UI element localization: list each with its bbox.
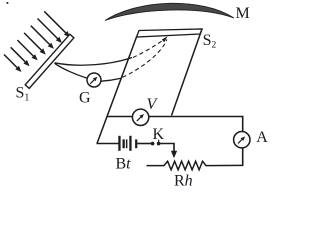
dashed ray upper (133, 40, 164, 58)
wire ammeter to bottom corner (242, 148, 244, 166)
svg-text:M: M (236, 5, 250, 22)
dashed ray lower (123, 40, 167, 78)
wire S1 to enclosure (upper) (55, 58, 133, 66)
stray dot (7, 2, 9, 4)
plate S2 strip (137, 29, 203, 37)
mirror M (105, 3, 234, 20)
electrode plate S1 (25, 34, 74, 88)
svg-text:K: K (153, 126, 165, 143)
rheostat Rh (147, 161, 244, 170)
voltmeter V (132, 109, 148, 125)
incident light rays (4, 11, 70, 72)
galvanometer G (87, 73, 101, 87)
battery Bt (118, 136, 137, 151)
wire enclosure to battery (97, 143, 119, 145)
wire battery to key (137, 143, 151, 145)
svg-text:Rh: Rh (174, 173, 193, 190)
wire voltmeter to right corner (149, 116, 244, 118)
svg-text:G: G (79, 90, 91, 107)
svg-text:A: A (256, 129, 268, 146)
wire G to enclosure (101, 78, 121, 81)
dashed ray arrowhead (162, 36, 168, 42)
ammeter A (234, 132, 250, 148)
wire left edge to voltmeter (107, 116, 132, 118)
wire down to ammeter (242, 117, 244, 132)
wire key to rheostat wiper (160, 144, 175, 152)
enclosure right edge (172, 29, 203, 116)
wiper arrowhead (171, 151, 177, 158)
key K contacts (151, 140, 161, 146)
enclosure left edge (97, 37, 137, 144)
svg-text:Bt: Bt (116, 155, 132, 172)
wire S1 to galvanometer (55, 63, 88, 78)
